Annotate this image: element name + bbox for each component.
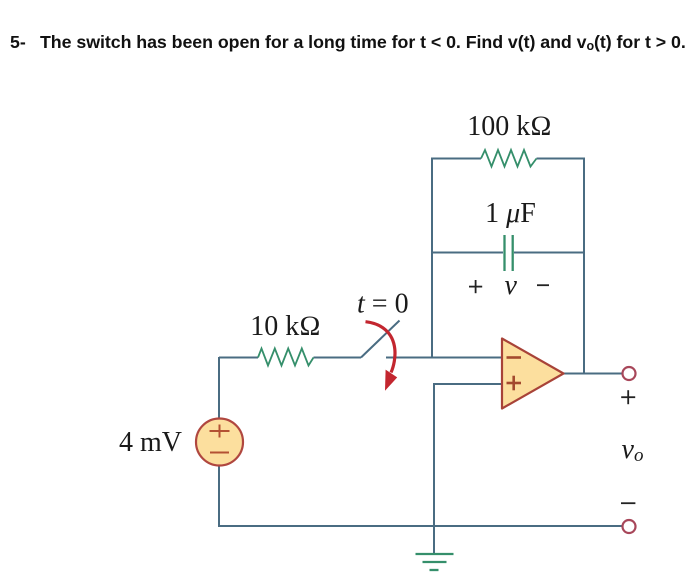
svg-text:The switch has been open for a: The switch has been open for a long time… — [40, 32, 686, 53]
svg-text:10 kΩ: 10 kΩ — [250, 311, 321, 342]
svg-text:v: v — [504, 270, 517, 301]
svg-text:5-: 5- — [10, 32, 26, 52]
svg-text:100 kΩ: 100 kΩ — [467, 111, 552, 142]
svg-text:4 mV: 4 mV — [119, 427, 182, 458]
svg-text:t = 0: t = 0 — [357, 289, 409, 320]
svg-text:1 μF: 1 μF — [485, 198, 536, 229]
svg-text:vo: vo — [622, 434, 644, 466]
